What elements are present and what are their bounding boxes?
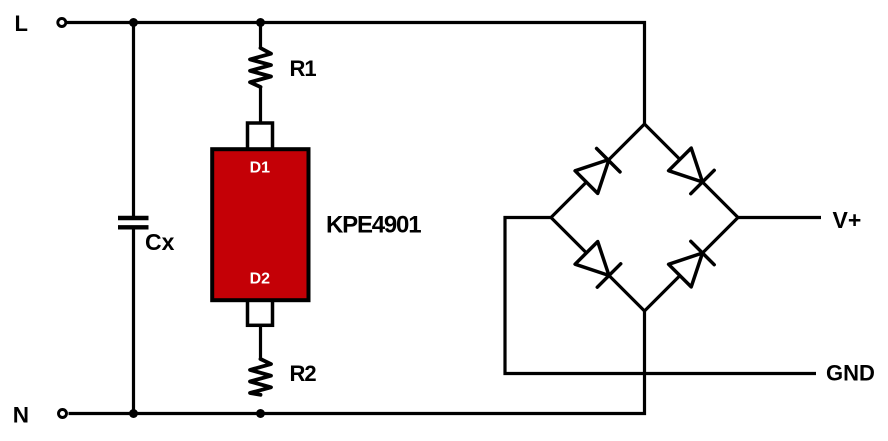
junction dot bottom-left: [129, 409, 138, 418]
optocoupler KPE4901 body: [212, 149, 308, 300]
diode bridge bottom-right: [669, 241, 715, 287]
svg-text:D2: D2: [250, 271, 271, 288]
pin D1 top terminal box: [248, 123, 273, 153]
wire R1 to pin: [259, 86, 262, 124]
resistor R1: [250, 48, 271, 87]
pin D2 bottom terminal box: [248, 297, 273, 325]
terminal L: [58, 19, 66, 27]
wire GND output: [505, 218, 816, 374]
svg-text:Cx: Cx: [145, 229, 175, 255]
svg-text:R1: R1: [290, 56, 317, 81]
wire L top rail: [67, 23, 645, 125]
capacitor Cx: [118, 218, 149, 227]
junction dot top-left: [129, 18, 138, 27]
diode bridge bottom-left: [575, 242, 621, 288]
resistor R2: [250, 359, 271, 395]
junction dot top-middle: [256, 18, 265, 27]
svg-text:GND: GND: [826, 361, 875, 386]
diode bridge top-right: [669, 148, 715, 194]
diode bridge top-left: [575, 149, 620, 194]
svg-text:V+: V+: [833, 207, 862, 233]
wire N bottom rail: [69, 311, 645, 414]
wire R2 bottom lead: [259, 325, 262, 360]
svg-text:D1: D1: [250, 159, 271, 176]
wire V+ output: [738, 216, 821, 219]
svg-text:KPE4901: KPE4901: [326, 211, 421, 238]
wire Cx branch upper: [132, 23, 135, 218]
wire R1 top lead: [259, 23, 262, 50]
terminal N: [59, 410, 67, 418]
wire Cx branch lower: [132, 228, 135, 414]
svg-text:R2: R2: [290, 361, 317, 386]
junction dot bottom-middle: [256, 409, 265, 418]
bridge diamond: [551, 124, 738, 311]
svg-text:L: L: [15, 11, 28, 36]
svg-text:N: N: [13, 402, 29, 427]
